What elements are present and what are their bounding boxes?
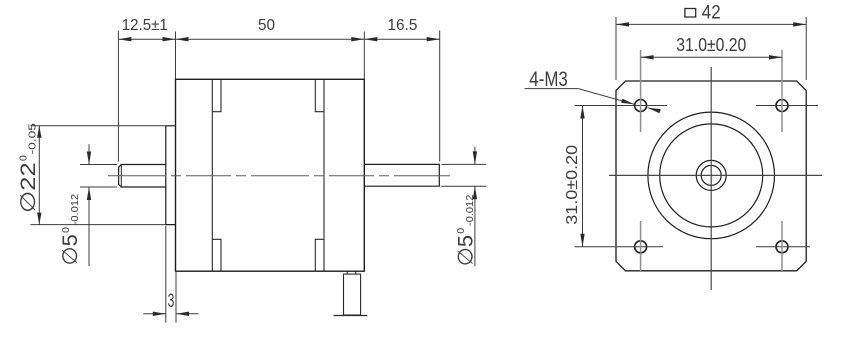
extension line left shaft end: [117, 31, 119, 162]
Phi22 extension lines: [30, 125, 165, 127]
Phi22 dimension line: [38, 126, 40, 225]
42 dimension line: [616, 23, 806, 25]
Phi5 right label: [454, 194, 477, 266]
svg-text:42: 42: [702, 2, 721, 24]
svg-text:-0.012: -0.012: [465, 194, 476, 226]
svg-text:0: 0: [456, 228, 467, 234]
hole crosshair horizontals: [575, 105, 668, 107]
mounting hole top-left: [635, 100, 647, 112]
svg-text:∅22: ∅22: [17, 162, 40, 213]
cable connector tabs: [346, 271, 348, 274]
Phi5 right extension lines: [442, 163, 487, 165]
svg-text:12.5±1: 12.5±1: [122, 17, 168, 34]
svg-text:16.5: 16.5: [387, 17, 417, 34]
mounting hole bottom-left: [635, 241, 647, 253]
extension line right shaft end: [439, 31, 441, 162]
Phi5 left label: [59, 194, 82, 266]
pilot boss circle phi22: [660, 124, 763, 227]
svg-text:4-M3: 4-M3: [529, 68, 568, 91]
arrows top dimension line: [118, 37, 131, 41]
extension line body right face: [363, 32, 365, 80]
3 dim extension lines: [165, 226, 167, 323]
bearing hub circle: [696, 160, 726, 190]
svg-text:-0.05: -0.05: [28, 123, 39, 155]
svg-text:31.0±0.20: 31.0±0.20: [564, 144, 581, 224]
svg-text:50: 50: [258, 17, 275, 34]
top-right step notch: [315, 79, 324, 111]
Phi22 label: [17, 123, 40, 213]
mounting hole top-right: [776, 100, 788, 112]
axis centerline: [108, 175, 450, 177]
4-M3 leader underline: [525, 88, 579, 90]
outer face circle: [648, 112, 775, 239]
mounting hole bottom-right: [776, 241, 788, 253]
svg-text:∅5: ∅5: [454, 235, 477, 266]
central crosshair vertical: [710, 67, 712, 290]
31.0 horizontal dimension line: [641, 56, 782, 58]
31.0 vertical label (rotated): [564, 144, 581, 224]
3 label: [168, 290, 175, 312]
left shaft with chamfered end: [119, 165, 166, 188]
svg-text:0: 0: [19, 155, 30, 161]
top-left step notch: [212, 79, 221, 111]
4-M3 leader far-side segment: [648, 108, 661, 111]
svg-text:∅5: ∅5: [59, 234, 82, 265]
cable connector body: [344, 274, 361, 315]
Phi5 left dimension lines: [88, 144, 90, 164]
4-M3 leader line: [578, 89, 634, 105]
svg-text:3: 3: [168, 290, 175, 312]
svg-text:0: 0: [61, 227, 72, 233]
rear end-cap boundary line: [323, 79, 325, 271]
3 dimension line with outside arrows: [143, 313, 166, 315]
svg-text:31.0±0.20: 31.0±0.20: [676, 35, 746, 55]
Phi5 right dimension lines: [474, 147, 476, 165]
central crosshair horizontal: [609, 174, 822, 176]
shaft circle phi5: [701, 165, 721, 185]
42 dim extension lines: [615, 17, 617, 80]
cable connector base line: [334, 315, 368, 317]
bottom-right step notch: [315, 239, 324, 271]
svg-text:-0.012: -0.012: [70, 194, 81, 226]
pilot boss rectangle: [166, 126, 176, 225]
right shaft: [364, 164, 439, 186]
bottom-left step notch: [212, 239, 221, 271]
square-42 label: [685, 9, 696, 18]
hole crosshair verticals (gray): [640, 50, 642, 132]
extension line body left face: [175, 32, 177, 80]
flange square with chamfered corners: [616, 81, 806, 271]
31.0 vertical dimension line: [582, 106, 584, 247]
dimension line 12.5 / 50 / 16.5: [118, 38, 439, 40]
Phi5 left extension lines: [80, 164, 117, 166]
front end-cap boundary line: [211, 79, 213, 271]
motor body outline: [176, 79, 365, 271]
